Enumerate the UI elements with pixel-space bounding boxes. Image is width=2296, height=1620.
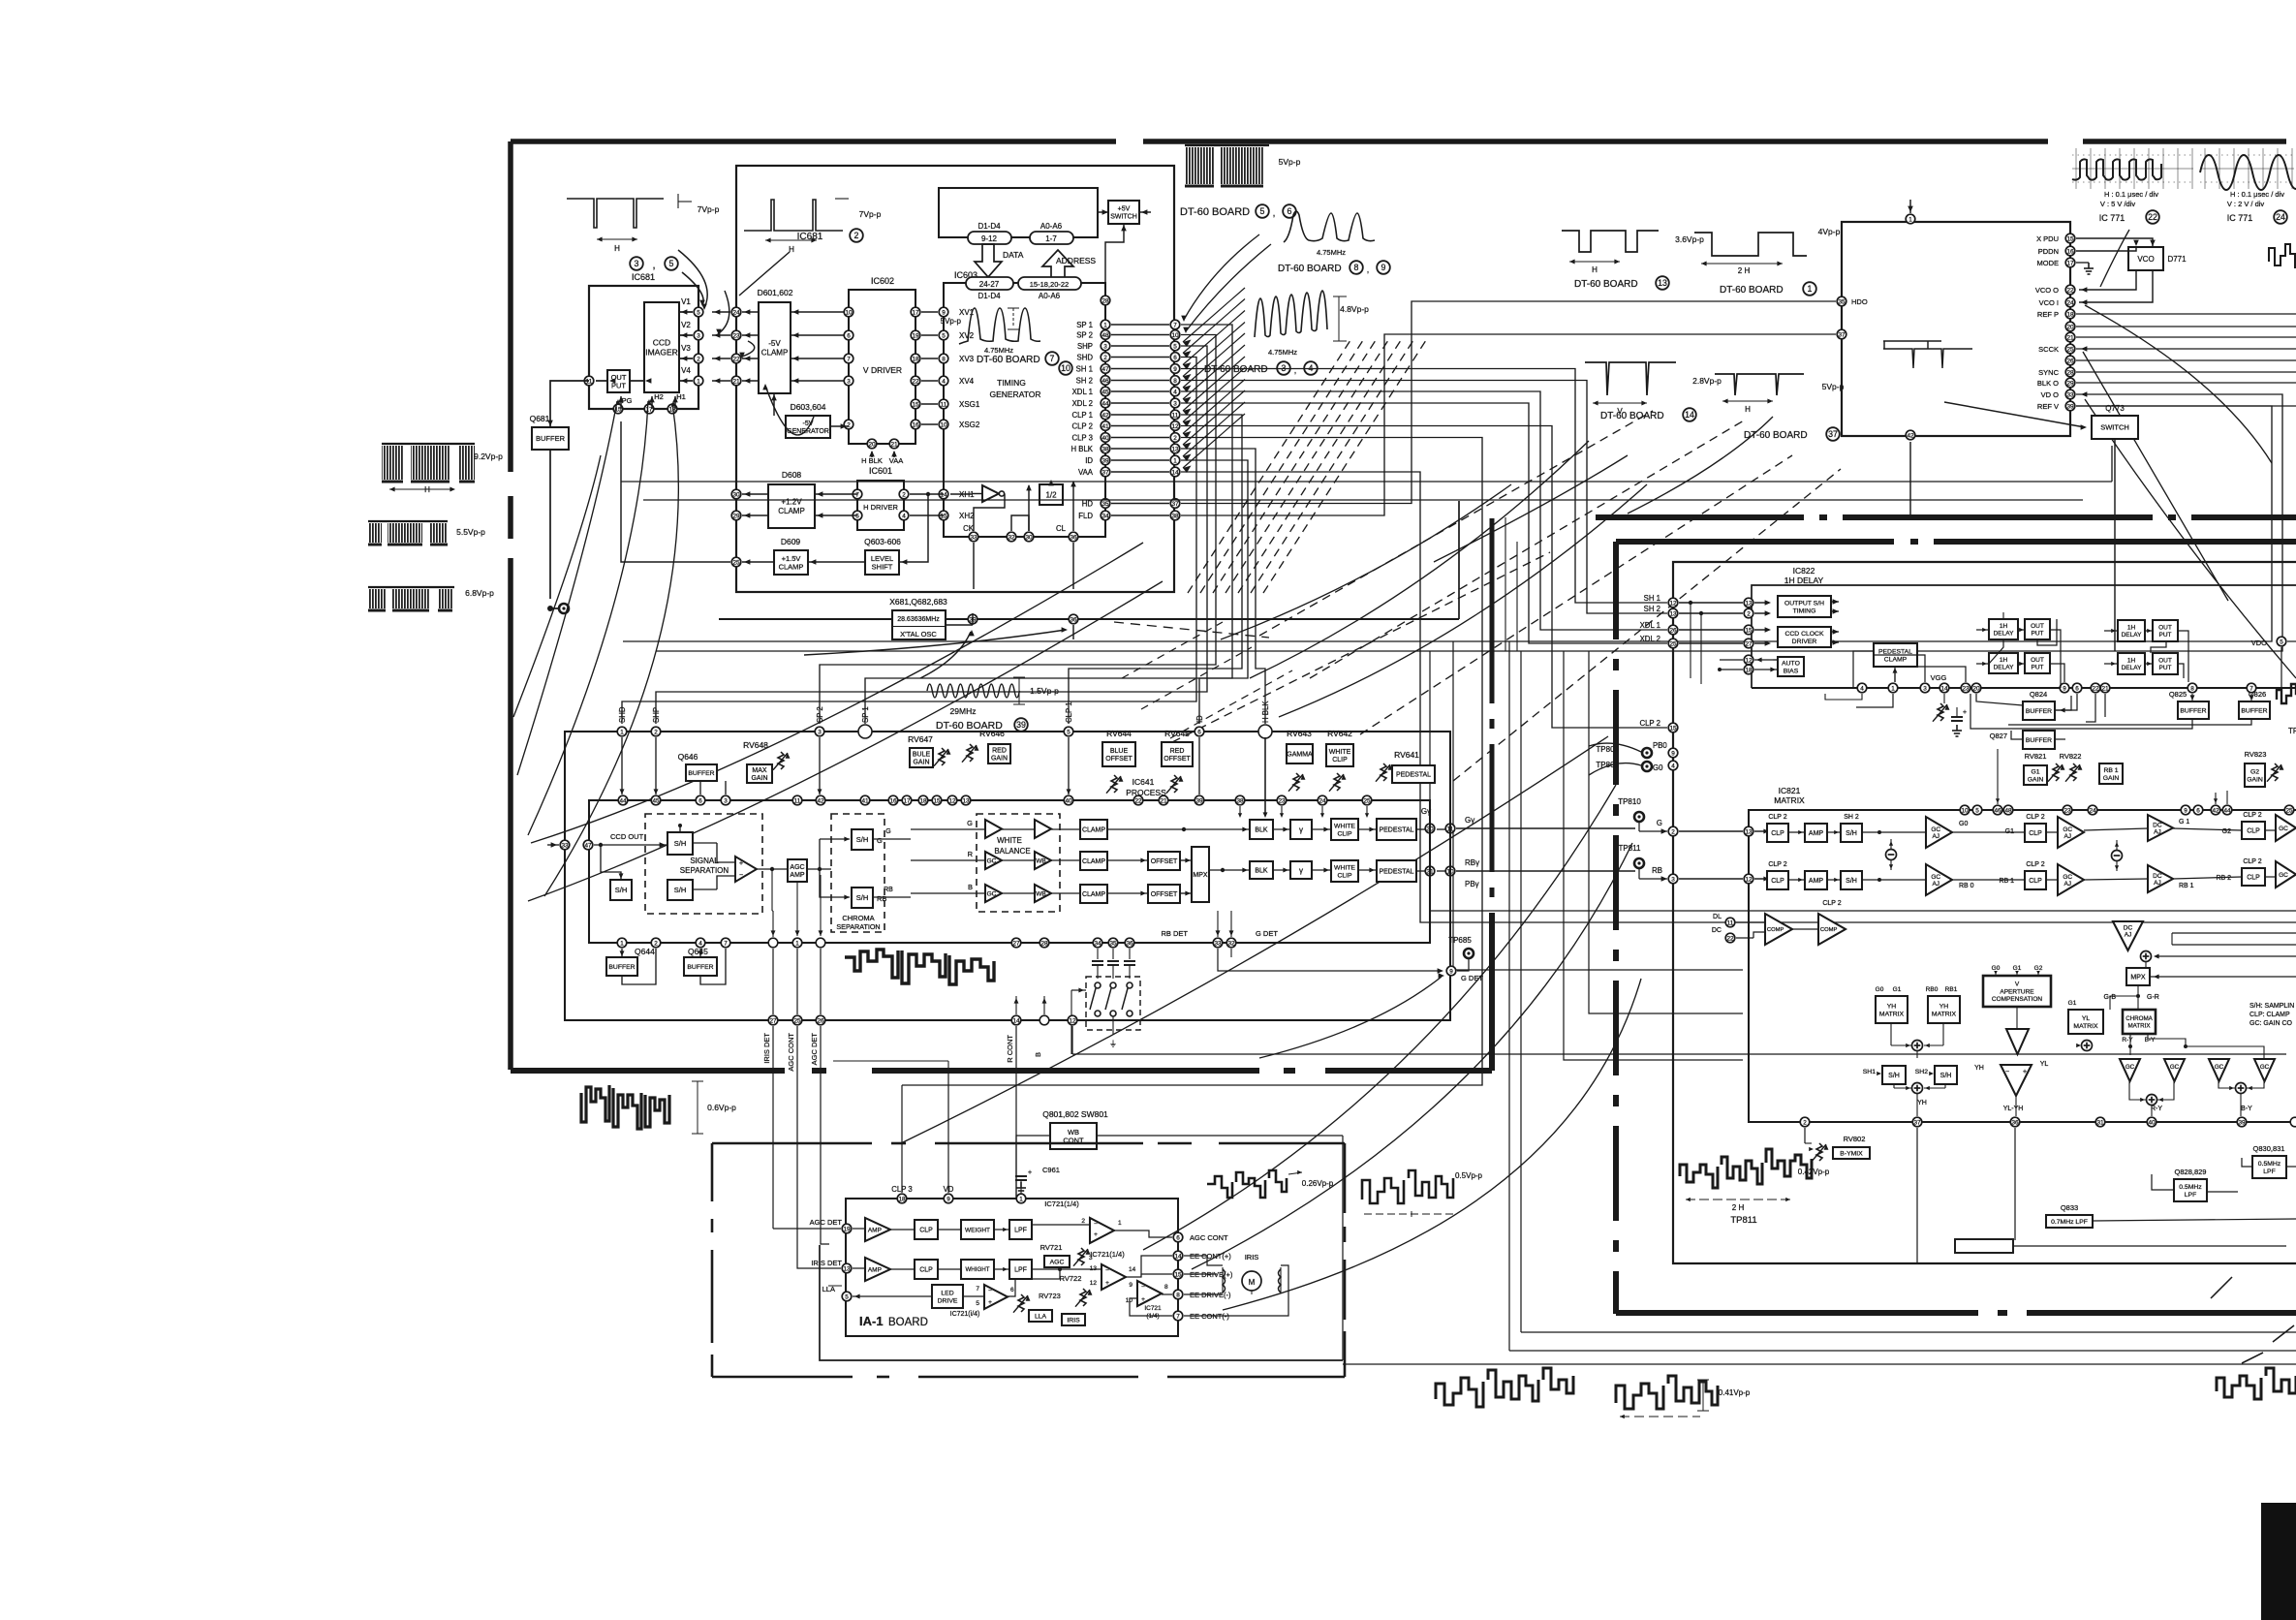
svg-text:AGC CONT: AGC CONT — [787, 1033, 795, 1072]
svg-text:GAIN: GAIN — [913, 760, 929, 766]
svg-text:S/H: S/H — [674, 839, 687, 848]
svg-text:REF V: REF V — [2037, 402, 2059, 411]
pedestal clamp block — [1874, 643, 1917, 667]
node 28 — [1101, 296, 1110, 305]
svg-text:GC: GC — [2063, 874, 2072, 881]
svg-text:1: 1 — [1808, 284, 1813, 294]
svg-text:DC: DC — [2153, 873, 2162, 880]
svg-text:CLP 2: CLP 2 — [2243, 812, 2261, 819]
svg-text:AMP: AMP — [1809, 830, 1824, 837]
svg-text:17: 17 — [912, 309, 919, 316]
svg-text:CLP 2: CLP 2 — [1071, 422, 1093, 431]
svg-text:2: 2 — [697, 356, 700, 362]
svg-text:DT-60 BOARD: DT-60 BOARD — [1574, 279, 1638, 290]
svg-text:GC: GC — [987, 857, 997, 864]
svg-text:5: 5 — [2280, 639, 2283, 645]
connector oval 15-18 20-22 — [1018, 277, 1081, 290]
svg-text:LPF: LPF — [1014, 1266, 1027, 1273]
svg-text:XDL 2: XDL 2 — [1072, 399, 1093, 408]
node 1 top — [1906, 214, 1915, 224]
svg-text:25: 25 — [2066, 346, 2074, 353]
CCD imager — [644, 302, 679, 392]
svg-text:WB: WB — [1036, 890, 1045, 897]
svg-text:XSG1: XSG1 — [959, 400, 980, 409]
pedestal blocks — [1377, 819, 1416, 840]
pot RV723 LLA — [1018, 1294, 1024, 1312]
svg-text:V : 2 V / div: V : 2 V / div — [2227, 200, 2265, 208]
svg-text:BUFFER: BUFFER — [2241, 707, 2267, 714]
svg-text:,: , — [1273, 208, 1276, 219]
svg-text:BUFFER: BUFFER — [536, 434, 566, 443]
svg-text:S/H: S/H — [674, 886, 687, 894]
svg-text:SHP: SHP — [652, 707, 661, 723]
svg-text:Q644: Q644 — [635, 947, 655, 956]
svg-text:CL: CL — [1056, 524, 1067, 533]
svg-text:WHITE: WHITE — [1334, 823, 1355, 829]
node EE DRIVE- pin 8 — [1173, 1290, 1183, 1299]
svg-text:TP804: TP804 — [1596, 745, 1619, 754]
waveform 3.6Vp-p square — [1562, 231, 1659, 252]
svg-text:CLP: CLP — [1771, 830, 1784, 837]
wire IC822 internal feedbacks — [1853, 651, 1874, 688]
svg-text:13: 13 — [962, 797, 970, 804]
gamma blocks — [1290, 820, 1312, 839]
svg-text:LPF: LPF — [2185, 1192, 2196, 1199]
svg-text:B: B — [968, 883, 973, 891]
svg-text:7: 7 — [847, 356, 851, 362]
svg-text:YL: YL — [2040, 1061, 2049, 1068]
node 42 bottom — [1906, 430, 1915, 440]
waveform 4.75MHz pulses in TG — [959, 308, 1040, 344]
svg-text:AJ: AJ — [1932, 881, 1939, 888]
svg-text:14: 14 — [940, 491, 947, 498]
svg-text:2: 2 — [1081, 1218, 1085, 1225]
svg-text:PUT: PUT — [2032, 631, 2044, 638]
waveform 6.8Vp-p hatched bar — [368, 586, 454, 588]
matrix DC AJ G1 — [2148, 815, 2173, 841]
svg-text:RV821: RV821 — [2025, 752, 2047, 761]
svg-text:34: 34 — [1094, 940, 1101, 947]
svg-text:2: 2 — [654, 729, 658, 735]
wire curved arrows to V pins — [678, 250, 707, 308]
svg-text:GAIN: GAIN — [991, 756, 1008, 763]
svg-text:X PDU: X PDU — [2036, 234, 2059, 243]
V aperture compensation block — [1983, 976, 2051, 1007]
svg-text:38: 38 — [1171, 513, 1179, 519]
svg-text:PEDESTAL: PEDESTAL — [1379, 826, 1413, 833]
wire IC602 to IC603 rows — [921, 311, 938, 313]
connector oval 9-12 — [968, 232, 1011, 244]
svg-text:GC: GC — [987, 890, 997, 897]
1H delay out put pair B — [1989, 653, 2018, 673]
pins 27 25 26 bottom — [768, 1015, 778, 1025]
svg-text:15: 15 — [912, 401, 919, 408]
svg-text:SHIFT: SHIFT — [872, 562, 893, 571]
svg-text:22: 22 — [2092, 685, 2099, 692]
wire SH XDL lines to IC822 pins — [1679, 602, 1743, 604]
svg-text:24: 24 — [2066, 299, 2074, 306]
svg-text:SP 1: SP 1 — [1076, 321, 1093, 329]
svg-text:13: 13 — [1745, 828, 1753, 835]
waveform 0.5Vp-p staircase 2 — [1362, 1170, 1453, 1203]
svg-text:11: 11 — [794, 797, 801, 804]
svg-text:3: 3 — [724, 797, 728, 804]
DATA block arrow — [975, 244, 1002, 277]
svg-text:16: 16 — [2066, 248, 2074, 255]
block LPF 1 — [1009, 1220, 1032, 1239]
svg-text:TP801: TP801 — [1596, 761, 1619, 769]
svg-text:22: 22 — [2148, 212, 2157, 222]
svg-text:RBγ: RBγ — [1465, 858, 1479, 867]
svg-text:IC721(i/4): IC721(i/4) — [950, 1311, 980, 1318]
svg-text:14: 14 — [1685, 410, 1694, 420]
svg-text:RB: RB — [877, 894, 886, 903]
svg-text:REF P: REF P — [2037, 310, 2059, 319]
svg-text:GC: GC — [2279, 872, 2288, 879]
svg-text:27: 27 — [1745, 640, 1753, 647]
svg-text:7Vp-p: 7Vp-p — [698, 204, 720, 214]
svg-text:2: 2 — [1747, 610, 1751, 617]
wire curved arrows DT-60 5 6 to pins — [1184, 234, 1259, 320]
waveform 5Vp-p hatched bar top — [1185, 144, 1269, 146]
svg-text:5Vp-p: 5Vp-p — [1279, 157, 1301, 167]
waveform 5.5Vp-p hatched bar — [368, 520, 448, 522]
svg-text:20: 20 — [868, 441, 876, 448]
svg-text:MPX: MPX — [1193, 872, 1208, 879]
svg-text:WHITE: WHITE — [997, 836, 1022, 845]
wire dashed diagonals long — [1259, 411, 1653, 636]
block CLP 1 — [915, 1220, 938, 1239]
svg-text:D608: D608 — [782, 470, 802, 480]
connector oval 1-7 — [1030, 232, 1073, 244]
svg-text:23: 23 — [1278, 797, 1286, 804]
svg-text:AGC DET: AGC DET — [810, 1033, 819, 1066]
wire CCD to output — [630, 380, 644, 382]
svg-text:29: 29 — [732, 513, 740, 519]
svg-text:1H: 1H — [2127, 657, 2136, 664]
waveform 0.26Vp-p staircase — [1207, 1170, 1287, 1198]
svg-text:+: + — [739, 860, 743, 867]
svg-text:CLP 2: CLP 2 — [1768, 814, 1786, 821]
svg-text:CHROMA: CHROMA — [842, 914, 874, 922]
svg-text:+: + — [1105, 1280, 1109, 1287]
svg-text:33: 33 — [561, 842, 569, 849]
svg-text:1: 1 — [620, 940, 624, 947]
svg-text:42: 42 — [817, 797, 824, 804]
svg-text:36: 36 — [2011, 1119, 2019, 1126]
svg-text:R: R — [968, 850, 974, 858]
svg-text:TP811: TP811 — [1730, 1215, 1756, 1226]
svg-text:45: 45 — [652, 797, 660, 804]
svg-text:COMP: COMP — [1767, 927, 1784, 933]
waveform 7Vp-p negative pulses — [567, 199, 664, 228]
svg-text:9: 9 — [1173, 366, 1177, 373]
svg-text:IC 771: IC 771 — [2099, 213, 2125, 223]
svg-text:H BLK: H BLK — [1261, 701, 1270, 723]
svg-text:GC: GC — [2125, 1064, 2135, 1071]
svg-text:47: 47 — [584, 842, 592, 849]
svg-text:DT-60 BOARD: DT-60 BOARD — [1600, 411, 1664, 421]
svg-text:COMP: COMP — [1820, 927, 1838, 933]
svg-text:17: 17 — [903, 797, 911, 804]
svg-text:B-YMIX: B-YMIX — [1840, 1150, 1863, 1157]
svg-text:22: 22 — [732, 356, 740, 362]
svg-text:RB: RB — [1652, 866, 1662, 875]
svg-text:1/2: 1/2 — [1045, 490, 1057, 499]
svg-text:20: 20 — [1972, 685, 1980, 692]
svg-text:Q801,802 SW801: Q801,802 SW801 — [1042, 1109, 1108, 1119]
svg-text:39: 39 — [1195, 797, 1203, 804]
svg-text:V1: V1 — [681, 297, 691, 306]
svg-text:DT-60 BOARD: DT-60 BOARD — [977, 355, 1040, 365]
svg-text:10: 10 — [1171, 332, 1179, 339]
svg-text:46: 46 — [1994, 807, 2001, 814]
wire V-driver to clamp rows — [791, 311, 849, 313]
svg-text:CLP 2: CLP 2 — [1768, 861, 1786, 868]
svg-text:PEDESTAL: PEDESTAL — [1379, 868, 1413, 875]
half divider block — [1039, 484, 1063, 505]
svg-text:ID: ID — [1085, 456, 1093, 465]
svg-text:13: 13 — [1745, 600, 1753, 607]
svg-text:IRIS: IRIS — [1245, 1253, 1259, 1262]
svg-text:S/H: S/H — [856, 835, 869, 844]
svg-text:RB 1: RB 1 — [1999, 878, 2014, 885]
svg-text:18: 18 — [919, 797, 927, 804]
svg-text:HDO: HDO — [1851, 297, 1868, 306]
block WHIGHT — [961, 1260, 994, 1279]
svg-text:G2: G2 — [2034, 965, 2043, 972]
svg-text:1-7: 1-7 — [1045, 234, 1057, 243]
svg-text:TP: TP — [2288, 727, 2296, 735]
svg-text:+: + — [988, 1299, 992, 1306]
svg-text:19: 19 — [843, 1226, 851, 1232]
svg-text:CLAMP: CLAMP — [1082, 826, 1105, 833]
svg-text:13: 13 — [1658, 278, 1667, 288]
svg-text:3: 3 — [1923, 685, 1927, 692]
svg-text:24-27: 24-27 — [979, 280, 1000, 289]
svg-text:Q603-606: Q603-606 — [864, 537, 901, 546]
svg-text:,: , — [652, 260, 655, 271]
svg-text:SH 2: SH 2 — [1644, 605, 1660, 613]
svg-text:31: 31 — [2096, 1119, 2104, 1126]
svg-text:AJ: AJ — [2063, 833, 2071, 840]
svg-text:8: 8 — [1354, 263, 1359, 272]
svg-text:Q646: Q646 — [678, 752, 698, 762]
svg-text:6: 6 — [698, 797, 702, 804]
block WEIGHT — [961, 1220, 994, 1239]
svg-text:5Vp-p: 5Vp-p — [941, 317, 962, 326]
svg-text:40: 40 — [2148, 1119, 2156, 1126]
svg-text:RV721: RV721 — [1040, 1243, 1063, 1252]
svg-text:1: 1 — [1019, 1196, 1023, 1202]
svg-text:M: M — [1249, 1278, 1256, 1287]
svg-text:DT-60 BOARD: DT-60 BOARD — [1278, 264, 1342, 274]
svg-text:IC721(1/4): IC721(1/4) — [1044, 1199, 1079, 1208]
svg-text:G1: G1 — [2031, 768, 2039, 775]
svg-text:26: 26 — [817, 1017, 824, 1024]
scope trace sine IC771 24 — [2200, 155, 2296, 190]
svg-text:YL-YH: YL-YH — [2003, 1106, 2024, 1112]
svg-text:G1: G1 — [1893, 986, 1902, 993]
AGC amp block — [788, 859, 807, 882]
svg-text:26: 26 — [2066, 358, 2074, 364]
svg-text:5: 5 — [1975, 807, 1979, 814]
wire long horizontals upper — [621, 481, 2112, 483]
wire arcs from left border to CCD H pins — [517, 401, 617, 775]
IC771 box — [1842, 222, 2070, 436]
svg-text:23: 23 — [1962, 685, 1970, 692]
wire fan from TG pins — [865, 325, 1232, 724]
svg-text:YH: YH — [1974, 1065, 1984, 1072]
svg-text:CCD CLOCK: CCD CLOCK — [1784, 631, 1823, 638]
svg-text:CLAMP: CLAMP — [1884, 656, 1908, 663]
svg-text:4: 4 — [942, 378, 946, 385]
node minus mixer — [1886, 850, 1897, 860]
svg-text:GENERATOR: GENERATOR — [989, 389, 1040, 399]
svg-text:RV642: RV642 — [1327, 729, 1352, 738]
waveform 2.8Vp-p narrow pulses — [1585, 362, 1676, 395]
svg-text:BUFFER: BUFFER — [687, 964, 713, 971]
svg-text:OFFSET: OFFSET — [1105, 756, 1132, 763]
svg-text:24: 24 — [2089, 807, 2096, 814]
wire heavy dash-dot separator upper — [1596, 514, 1804, 520]
wire slash marks bottom lines — [2273, 1325, 2294, 1342]
wire inverter loop — [974, 494, 1005, 532]
sample hold chroma 2 — [852, 888, 873, 908]
svg-text:SHD: SHD — [1077, 354, 1094, 362]
svg-text:5: 5 — [942, 332, 946, 339]
svg-text:6: 6 — [1173, 355, 1177, 361]
wire IA-1 outer dash-dot box — [712, 1142, 872, 1145]
GC triangles row of four — [2120, 1059, 2140, 1081]
svg-text:AGC: AGC — [1050, 1259, 1065, 1265]
svg-text:30: 30 — [732, 491, 740, 498]
svg-text:IC601: IC601 — [869, 466, 892, 476]
svg-text:35: 35 — [1101, 501, 1109, 508]
svg-text:25: 25 — [732, 559, 740, 566]
svg-text:G: G — [885, 828, 890, 835]
svg-text:RB1: RB1 — [1945, 986, 1958, 993]
node junction dot — [547, 606, 553, 611]
svg-text:DELAY: DELAY — [2122, 665, 2142, 671]
wire bus feeds to matrix lower pins — [1589, 651, 1743, 1013]
svg-text:CCD OUT: CCD OUT — [610, 832, 644, 841]
svg-text:37: 37 — [1171, 501, 1179, 508]
svg-text:21: 21 — [1160, 797, 1167, 804]
svg-text:15: 15 — [1174, 1271, 1182, 1278]
wire long horizontals lower — [623, 406, 2272, 641]
svg-text:16: 16 — [889, 797, 897, 804]
svg-text:AMP: AMP — [790, 872, 805, 879]
svg-text:CLP 2: CLP 2 — [2026, 814, 2044, 821]
svg-text:CHROMA: CHROMA — [2125, 1015, 2153, 1022]
svg-text:RV647: RV647 — [908, 734, 933, 744]
1H delay out put pair C — [2118, 620, 2145, 641]
svg-text:4.75MHz: 4.75MHz — [1317, 248, 1346, 257]
svg-text:AMP: AMP — [1809, 878, 1824, 885]
waveform bottom staircase B 0.41Vp-p — [1616, 1376, 1718, 1409]
svg-text:5: 5 — [1067, 729, 1070, 735]
svg-text:OUTPUT S/H: OUTPUT S/H — [1784, 600, 1824, 607]
svg-text:Q830,831: Q830,831 — [2253, 1144, 2285, 1153]
svg-text:V: V — [2015, 981, 2020, 988]
waveform 4Vp-p square wide — [1694, 233, 1807, 256]
svg-text:13: 13 — [1171, 446, 1179, 452]
svg-text:G-R: G-R — [2147, 994, 2159, 1001]
svg-text:OFFSET: OFFSET — [1151, 858, 1178, 865]
svg-text:ADDRESS: ADDRESS — [1056, 256, 1096, 265]
svg-text:12: 12 — [1069, 1017, 1076, 1024]
chroma separation dashed box — [831, 814, 884, 932]
svg-text:H: H — [1745, 405, 1751, 414]
svg-text:RB DET: RB DET — [1161, 929, 1188, 938]
op-amp AMP 1 — [865, 1218, 890, 1241]
svg-text:7: 7 — [724, 940, 728, 947]
svg-text:5: 5 — [1260, 206, 1265, 216]
svg-text:VDO: VDO — [2251, 639, 2267, 647]
svg-text:41: 41 — [1101, 423, 1109, 430]
wire VDO vertical — [2280, 647, 2282, 688]
svg-text:IRIS: IRIS — [1067, 1317, 1080, 1324]
svg-text:R-Y: R-Y — [2122, 1037, 2133, 1044]
svg-text:G: G — [877, 836, 883, 845]
svg-text:IC822: IC822 — [1793, 566, 1815, 576]
svg-text:4.8Vp-p: 4.8Vp-p — [1340, 304, 1369, 314]
svg-text:CLIP: CLIP — [1337, 830, 1352, 837]
svg-text:LPF: LPF — [1014, 1227, 1027, 1233]
svg-text:CLP 2: CLP 2 — [1822, 900, 1841, 907]
wire extra vertical bundle lines — [1505, 517, 1506, 651]
svg-text:PBγ: PBγ — [1465, 880, 1479, 888]
svg-text:Q833: Q833 — [2061, 1203, 2078, 1212]
svg-text:MODE: MODE — [2037, 259, 2060, 267]
svg-text:CLP 2: CLP 2 — [2243, 858, 2261, 865]
svg-text:33: 33 — [1214, 940, 1222, 947]
svg-text:SH 1: SH 1 — [1644, 594, 1660, 603]
svg-text:17: 17 — [2066, 260, 2074, 266]
svg-text:IA-1: IA-1 — [859, 1314, 884, 1328]
wire HD FLD to IC771 — [1181, 301, 1836, 504]
wire short dashed diagonals below TG — [1114, 622, 1269, 638]
svg-text:38: 38 — [1236, 797, 1244, 804]
svg-text:18: 18 — [898, 1196, 906, 1202]
svg-text:G DET: G DET — [1256, 929, 1278, 938]
white clip blocks — [1331, 819, 1358, 840]
svg-text:6: 6 — [1197, 729, 1201, 735]
svg-text:38: 38 — [1101, 446, 1109, 452]
node EE DRIVE+ pin 15 — [1173, 1269, 1183, 1279]
svg-text:VAA: VAA — [889, 456, 903, 465]
svg-text:1.5Vp-p: 1.5Vp-p — [1030, 686, 1059, 696]
connector box D1-D4 A0-A6 — [939, 188, 1098, 237]
svg-text:12: 12 — [1745, 657, 1753, 664]
wire IA-1 mid solid box — [820, 1245, 1343, 1360]
wire heavy dash-dot separator lower with corner — [1616, 539, 1894, 545]
svg-text:PEDESTAL: PEDESTAL — [1878, 648, 1912, 655]
svg-text:CLP: CLP — [2247, 874, 2260, 881]
svg-text:18: 18 — [912, 356, 919, 362]
svg-text:2: 2 — [1803, 1119, 1807, 1126]
wire delays vertical feeds — [2002, 612, 2004, 619]
node bottom rail pins IC641 — [617, 938, 627, 948]
svg-text:RB: RB — [884, 887, 893, 893]
svg-text:WHITE: WHITE — [1334, 864, 1355, 871]
svg-text:H : 0.1 μsec / div: H : 0.1 μsec / div — [2104, 190, 2158, 199]
svg-text:-5V: -5V — [768, 339, 781, 348]
svg-text:SP 2: SP 2 — [816, 706, 824, 723]
svg-text:41: 41 — [861, 797, 869, 804]
svg-text:GC: GC — [2063, 826, 2072, 833]
